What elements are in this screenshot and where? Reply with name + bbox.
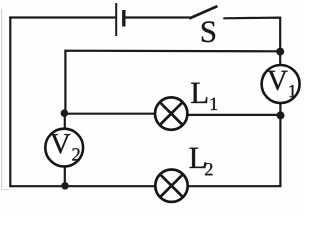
voltmeter V2 label V xyxy=(50,134,70,153)
wire: middle branch right (lamp L1 to right node) xyxy=(188,114,281,116)
junction node at V2 bottom xyxy=(61,182,69,190)
voltmeter V1 label V xyxy=(267,71,287,90)
wire: bottom left segment (corner through V2 node to lamp L2) xyxy=(9,185,154,187)
scan ghost edge left xyxy=(1,9,3,190)
wire: middle branch left (node to lamp L1) xyxy=(65,113,154,115)
voltmeter V1 body xyxy=(262,65,300,103)
lamp L2 label L xyxy=(189,148,205,168)
wire: left vertical side xyxy=(9,17,11,188)
junction node at V2 top xyxy=(61,109,69,117)
scan ghost edge bottom-left foot xyxy=(1,189,9,191)
lamp L1 body xyxy=(155,97,187,129)
battery cell: short negative plate xyxy=(122,10,125,27)
voltmeter V1 subscript 1 xyxy=(289,85,296,97)
junction node at V1 bottom xyxy=(277,111,285,119)
wire: bottom right segment (lamp L2 to bottom-right corner) xyxy=(189,185,282,187)
lamp L2 body xyxy=(155,170,187,202)
wire: switch fixed contact to top-right corner and down to node xyxy=(223,18,280,52)
battery cell: long positive plate xyxy=(115,3,117,36)
wire: battery to switch pivot xyxy=(126,16,191,18)
switch label S xyxy=(202,21,215,42)
wire: right vertical from node down to bottom-right corner xyxy=(279,115,281,187)
lamp L2 subscript 2 xyxy=(205,163,212,175)
voltmeter V2 subscript 2 xyxy=(72,148,79,160)
lamp L1 subscript 1 xyxy=(211,98,218,110)
voltmeter V2 body xyxy=(45,129,83,167)
wire: voltmeter V2 bottom to bottom node xyxy=(64,166,66,187)
junction node at V1 top xyxy=(276,48,284,56)
wire: inner top horizontal (node at V1 top across to left inner corner) xyxy=(65,51,280,114)
wire: node to voltmeter V1 top xyxy=(279,51,281,66)
wire: voltmeter V1 bottom to node xyxy=(279,102,281,116)
wire: top from left corner to battery xyxy=(9,16,115,18)
lamp L1 label L xyxy=(191,83,207,103)
wire: left inner node down into voltmeter V2 top xyxy=(64,113,66,130)
switch S: open arm blade xyxy=(189,6,217,18)
